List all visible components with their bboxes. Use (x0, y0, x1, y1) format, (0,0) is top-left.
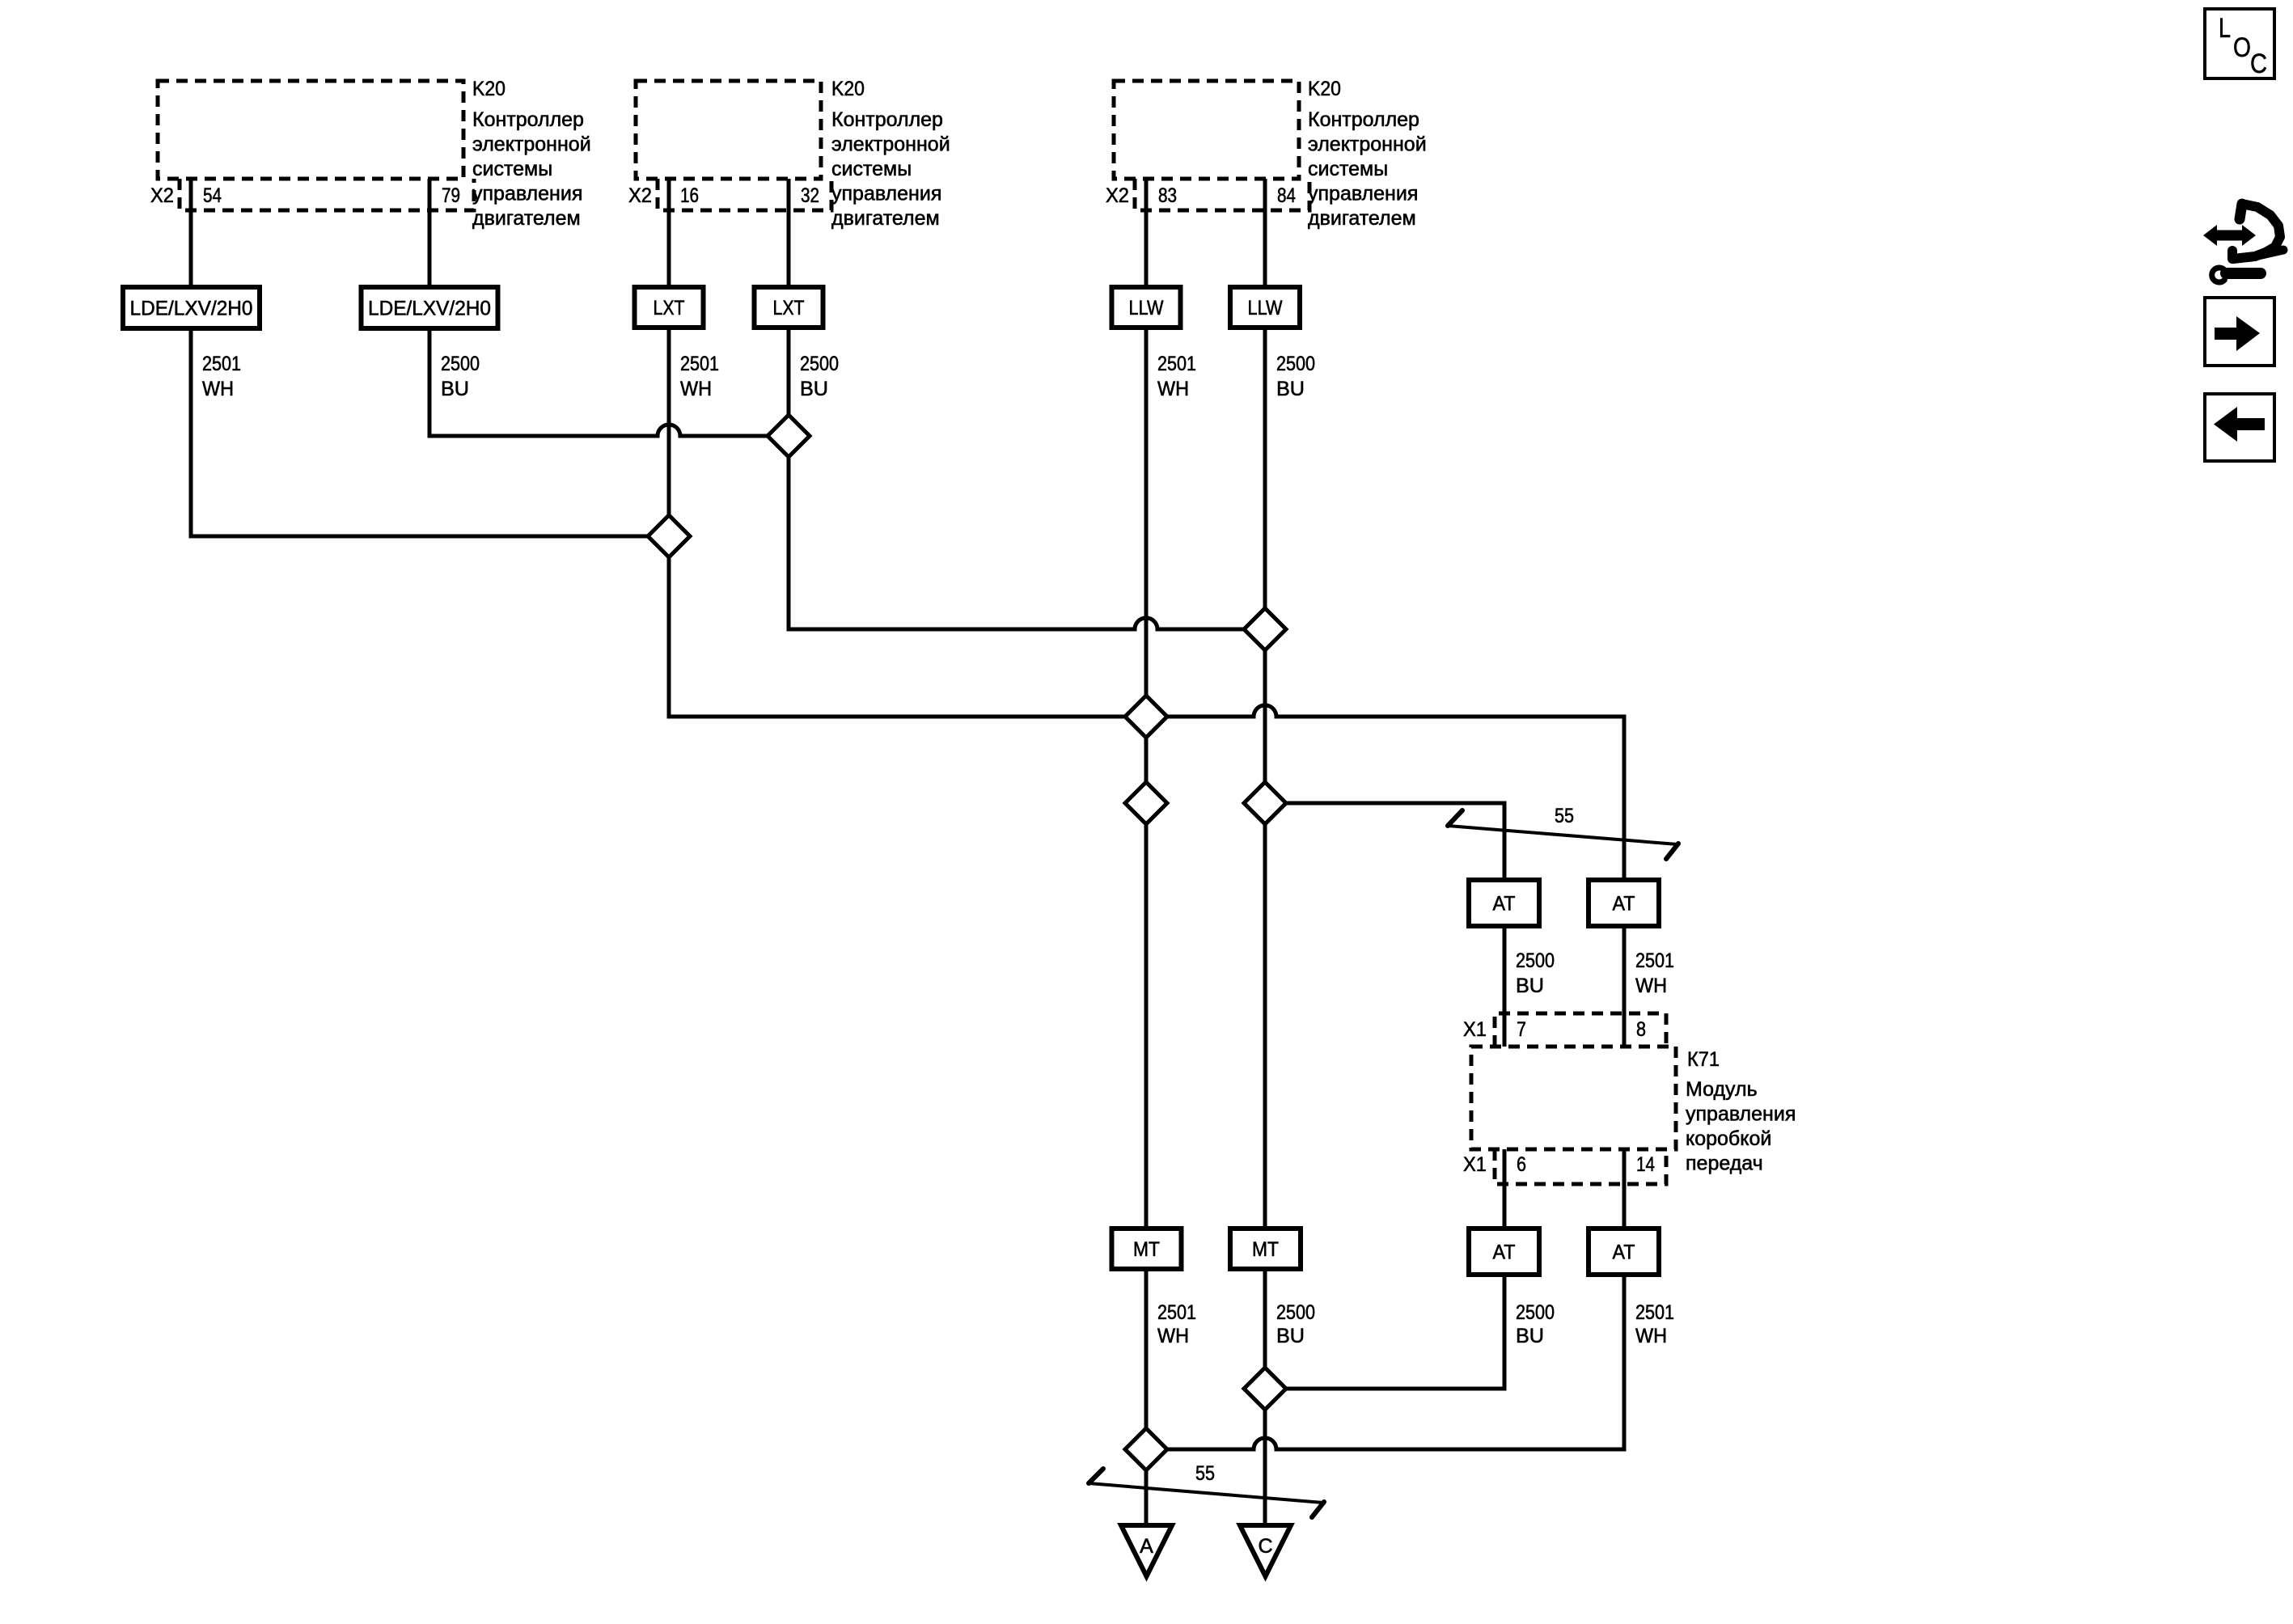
svg-text:2500: 2500 (1516, 1301, 1555, 1324)
svg-text:WH: WH (1635, 1325, 1667, 1347)
svg-text:электронной: электронной (1308, 133, 1427, 156)
svg-text:электронной: электронной (472, 133, 591, 156)
svg-text:2501: 2501 (1157, 353, 1196, 375)
svg-text:32: 32 (801, 184, 819, 207)
svg-text:54: 54 (203, 184, 222, 207)
svg-text:Модуль: Модуль (1686, 1078, 1758, 1101)
svg-text:AT: AT (1493, 1241, 1516, 1264)
svg-text:2500: 2500 (1516, 949, 1555, 972)
svg-text:BU: BU (441, 378, 469, 400)
svg-text:LDE/LXV/2H0: LDE/LXV/2H0 (368, 298, 491, 320)
svg-text:C: C (2250, 49, 2267, 79)
svg-text:BU: BU (1516, 1325, 1544, 1347)
svg-text:MT: MT (1252, 1238, 1279, 1261)
svg-text:14: 14 (1636, 1153, 1655, 1176)
svg-text:Контроллер: Контроллер (1308, 108, 1419, 131)
svg-text:L: L (2219, 13, 2231, 44)
svg-text:X2: X2 (1106, 184, 1129, 207)
svg-text:2500: 2500 (441, 353, 480, 375)
svg-text:A: A (1140, 1535, 1153, 1558)
svg-text:6: 6 (1517, 1153, 1526, 1176)
svg-text:системы: системы (472, 158, 552, 180)
svg-text:2501: 2501 (202, 353, 241, 375)
svg-text:2500: 2500 (800, 353, 839, 375)
svg-text:X1: X1 (1463, 1018, 1487, 1041)
svg-text:BU: BU (1276, 378, 1305, 400)
svg-text:X2: X2 (150, 184, 174, 207)
svg-text:управления: управления (472, 183, 582, 205)
svg-text:2500: 2500 (1276, 1301, 1315, 1324)
svg-text:LLW: LLW (1129, 297, 1164, 319)
svg-text:2500: 2500 (1276, 353, 1315, 375)
svg-text:двигателем: двигателем (831, 207, 940, 230)
svg-text:системы: системы (831, 158, 912, 180)
svg-text:управления: управления (1308, 183, 1418, 205)
svg-text:79: 79 (442, 184, 460, 207)
svg-text:K20: K20 (831, 78, 865, 100)
svg-text:8: 8 (1636, 1018, 1646, 1041)
svg-text:коробкой: коробкой (1686, 1127, 1771, 1150)
svg-text:LDE/LXV/2H0: LDE/LXV/2H0 (130, 298, 253, 320)
svg-text:WH: WH (680, 378, 712, 400)
svg-text:электронной: электронной (831, 133, 950, 156)
svg-text:управления: управления (1686, 1103, 1796, 1126)
svg-text:O: O (2233, 32, 2251, 63)
svg-text:2501: 2501 (1157, 1301, 1196, 1324)
svg-text:двигателем: двигателем (1308, 207, 1416, 230)
svg-text:2501: 2501 (680, 353, 719, 375)
svg-text:AT: AT (1493, 893, 1516, 916)
svg-text:7: 7 (1517, 1018, 1526, 1041)
svg-text:К71: К71 (1687, 1048, 1720, 1071)
svg-text:16: 16 (680, 184, 699, 207)
svg-text:2501: 2501 (1635, 949, 1674, 972)
svg-text:LXT: LXT (654, 297, 685, 319)
svg-text:WH: WH (202, 378, 234, 400)
svg-text:WH: WH (1157, 1325, 1189, 1347)
svg-text:Контроллер: Контроллер (472, 108, 584, 131)
svg-text:передач: передач (1686, 1152, 1763, 1175)
svg-text:управления: управления (831, 183, 941, 205)
svg-text:AT: AT (1613, 893, 1635, 916)
svg-text:двигателем: двигателем (472, 207, 581, 230)
svg-text:K20: K20 (472, 78, 506, 100)
svg-text:MT: MT (1133, 1238, 1160, 1261)
svg-text:K20: K20 (1308, 78, 1341, 100)
svg-text:84: 84 (1277, 184, 1296, 207)
svg-text:BU: BU (1276, 1325, 1305, 1347)
svg-text:Контроллер: Контроллер (831, 108, 943, 131)
svg-text:55: 55 (1555, 805, 1574, 827)
svg-text:WH: WH (1635, 975, 1667, 997)
svg-text:X1: X1 (1463, 1153, 1487, 1176)
svg-text:AT: AT (1613, 1241, 1635, 1264)
svg-text:WH: WH (1157, 378, 1189, 400)
svg-text:BU: BU (1516, 975, 1544, 997)
svg-text:BU: BU (800, 378, 828, 400)
svg-text:C: C (1258, 1535, 1272, 1558)
svg-text:83: 83 (1158, 184, 1177, 207)
svg-text:системы: системы (1308, 158, 1388, 180)
svg-text:55: 55 (1195, 1462, 1215, 1485)
svg-text:LXT: LXT (773, 297, 805, 319)
svg-text:LLW: LLW (1248, 297, 1283, 319)
svg-text:2501: 2501 (1635, 1301, 1674, 1324)
svg-text:X2: X2 (628, 184, 652, 207)
